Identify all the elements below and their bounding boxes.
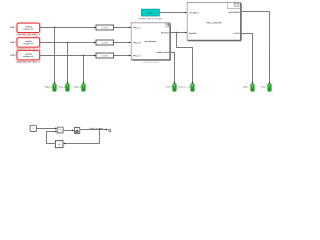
wire feedback into OR input2 arrowhead — [55, 131, 57, 133]
svg-text:CONTROLLER_HALL_C: CONTROLLER_HALL_C — [16, 61, 40, 64]
svg-text:HALL_C: HALL_C — [74, 85, 82, 88]
svg-text:HALL_B: HALL_B — [133, 41, 141, 44]
wire unit delay out back to OR input2 — [46, 131, 55, 143]
probe rotation_state (green) — [165, 84, 186, 92]
svg-text:uartTx: uartTx — [234, 32, 241, 35]
block UART TX triggered subsystem — [187, 2, 242, 41]
wire OR to rate block — [63, 129, 73, 131]
svg-text:Template value for init done: Template value for init done — [138, 17, 163, 20]
wire direction out to uart subsystem — [170, 32, 185, 34]
block S-Function get_direction — [131, 23, 171, 61]
svg-text:software INT: software INT — [23, 55, 34, 58]
wire convert2 to HALL_B port — [114, 41, 130, 43]
block HALL_B source (highlighted red) — [16, 37, 40, 48]
svg-text:uartTx: uartTx — [243, 86, 250, 89]
junction row1 — [54, 27, 56, 29]
wire branch row2 down to probe HALL_B — [66, 42, 68, 82]
svg-text:txRdy: txRdy — [261, 86, 266, 89]
block HALL_A source (highlighted red) — [16, 22, 40, 33]
wire row1 hallA to convert1 — [40, 26, 94, 28]
svg-text:software INT: software INT — [23, 28, 34, 31]
svg-text:dir: dir — [188, 86, 190, 89]
svg-text:direction: direction — [161, 31, 170, 34]
block convert3 (Data Type Conversion) — [96, 53, 114, 58]
svg-text:HALL_A: HALL_A — [45, 85, 53, 88]
svg-text:z: z — [59, 146, 60, 148]
svg-text:ready_1: ready_1 — [147, 13, 154, 15]
wire convert1 to HALL_A port — [114, 26, 130, 28]
wire cyan constant to rot_data port — [159, 12, 185, 14]
svg-text:CONTROLLER_HALL_A: CONTROLLER_HALL_A — [16, 33, 40, 36]
block unit delay (flipped) — [55, 141, 63, 148]
probe uartTx (green) — [243, 84, 255, 92]
svg-text:convert: convert — [101, 41, 108, 44]
svg-text:HALL_GAIN_INV: HALL_GAIN_INV — [207, 21, 223, 24]
svg-text:convert: convert — [102, 26, 109, 29]
svg-text:COM_R: COM_R — [165, 87, 172, 89]
wire direction branch down to probe B — [176, 33, 192, 83]
block convert2 (Data Type Conversion) — [96, 40, 114, 45]
wire branch row1 down to probe HALL_A — [53, 27, 55, 82]
wire feedback down and left to unit delay — [65, 129, 100, 143]
block template value constant (cyan) — [141, 9, 159, 16]
block rate transition — [74, 128, 79, 134]
junction on output wire — [99, 129, 101, 131]
svg-text:rot_data_1: rot_data_1 — [189, 11, 199, 14]
wire row2 hallB to convert2 — [40, 41, 94, 43]
svg-text:software INT: software INT — [23, 42, 34, 45]
wire uartTxReady out to probe D — [241, 12, 270, 83]
probe HALL_B (green) — [58, 84, 69, 92]
svg-text:HALL_A: HALL_A — [133, 26, 141, 29]
probe HALL_C (green) — [74, 84, 85, 92]
probe HALL_A (green) — [45, 84, 56, 92]
probe uartTxReady (green) — [261, 84, 271, 92]
svg-text:HALL_B: HALL_B — [58, 85, 66, 88]
svg-text:S-Function Builder: S-Function Builder — [142, 61, 159, 64]
wire uartTx out to probe C — [241, 34, 253, 83]
badge on UART subsystem — [228, 2, 241, 8]
block logical OR — [57, 127, 63, 133]
block constant 1 — [30, 125, 36, 131]
block HALL_C source (highlighted red) — [16, 50, 40, 61]
svg-text:rotation_st: rotation_st — [177, 86, 186, 89]
outport 1 — [109, 129, 111, 132]
svg-text:UART_tx_ready: UART_tx_ready — [90, 127, 103, 130]
wire rotation_state to probe A — [170, 53, 174, 83]
wire row3 hallC to convert3 — [40, 54, 94, 56]
block convert1 (Data Type Conversion) — [96, 25, 114, 30]
probe direction (green) — [188, 84, 194, 92]
wire branch row3 down to probe HALL_C — [82, 55, 84, 82]
junction row3 — [83, 55, 85, 57]
junction direction — [176, 32, 178, 34]
wire constant to OR — [36, 127, 55, 129]
svg-text:HALL_C: HALL_C — [133, 54, 141, 57]
svg-text:convert: convert — [101, 54, 108, 57]
svg-text:direction: direction — [189, 32, 198, 35]
wire convert3 to HALL_C port — [114, 54, 130, 56]
wire rate block to outport with label UART_tx_ready — [80, 128, 107, 130]
junction row2 — [67, 42, 69, 44]
svg-text:uartTxReady: uartTxReady — [228, 11, 240, 14]
badge on S-Function block — [166, 23, 170, 27]
svg-text:rotation_state: rotation_state — [156, 51, 169, 54]
svg-text:get_direction: get_direction — [145, 40, 158, 43]
